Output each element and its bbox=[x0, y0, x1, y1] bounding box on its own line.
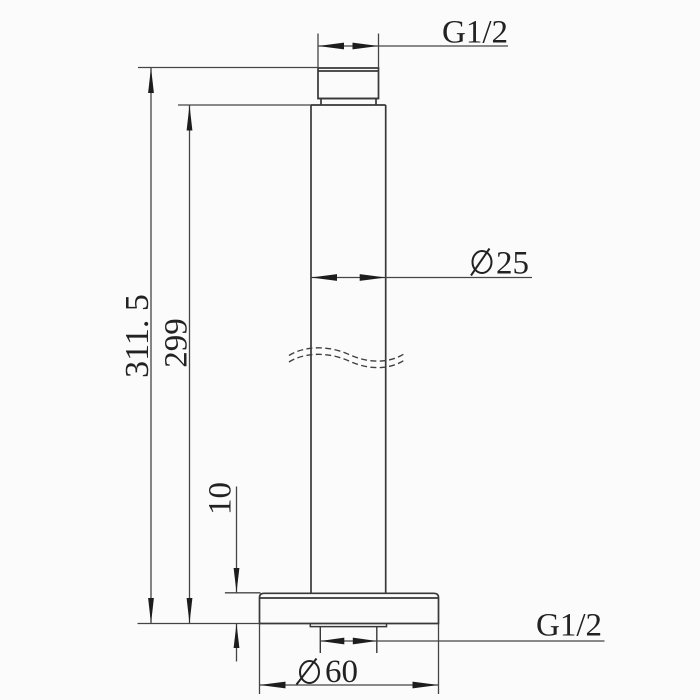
break lines (wavy) bbox=[289, 348, 406, 368]
top G1/2 dimension line with leader bbox=[318, 45, 508, 47]
bottom flange bbox=[260, 593, 439, 623]
dia-25 right arrow bbox=[360, 274, 386, 281]
svg-text:60: 60 bbox=[325, 654, 358, 690]
top G1/2 right arrow bbox=[353, 43, 379, 50]
top connector (G1/2 threaded end) bbox=[318, 68, 379, 99]
svg-text:25: 25 bbox=[496, 246, 529, 282]
311.5 dimension line bbox=[138, 68, 319, 624]
svg-text:G1/2: G1/2 bbox=[442, 15, 508, 51]
dia-60 symbol bbox=[297, 659, 320, 685]
svg-text:10: 10 bbox=[203, 482, 239, 515]
top G1/2 left arrow bbox=[318, 43, 344, 50]
299 dimension line bbox=[178, 105, 311, 624]
299 top arrow bbox=[187, 105, 193, 131]
311.5 top arrow bbox=[148, 68, 154, 94]
main tube body bbox=[311, 105, 386, 594]
dia-25 left arrow bbox=[311, 274, 337, 281]
top G1/2 dimension extension lines bbox=[318, 34, 379, 69]
299 bottom arrow bbox=[187, 598, 193, 624]
10 upper arrow (pointing down) bbox=[234, 568, 240, 593]
svg-text:299: 299 bbox=[159, 318, 195, 368]
311.5 bottom arrow bbox=[148, 598, 154, 624]
collar under flange bbox=[310, 624, 386, 627]
bottom G1/2 left arrow bbox=[320, 638, 344, 645]
svg-text:311. 5: 311. 5 bbox=[119, 294, 156, 378]
dia-60 left arrow bbox=[260, 682, 286, 689]
bottom G1/2 right arrow bbox=[353, 638, 377, 645]
neck below top connector bbox=[318, 99, 379, 106]
dia-60 dimension extension lines bbox=[260, 624, 439, 695]
bottom G1/2 dimension line with leader bbox=[320, 640, 604, 642]
bottom thread stub lines bbox=[320, 627, 377, 653]
svg-text:G1/2: G1/2 bbox=[536, 608, 602, 644]
dia-25 dimension line bbox=[311, 277, 532, 279]
10 dimension (flange thickness) bbox=[225, 487, 261, 662]
dia-25 symbol bbox=[471, 249, 492, 276]
10 lower arrow (pointing up) bbox=[234, 624, 240, 649]
dia-60 right arrow bbox=[413, 682, 439, 689]
dia-60 dimension line bbox=[260, 684, 439, 686]
